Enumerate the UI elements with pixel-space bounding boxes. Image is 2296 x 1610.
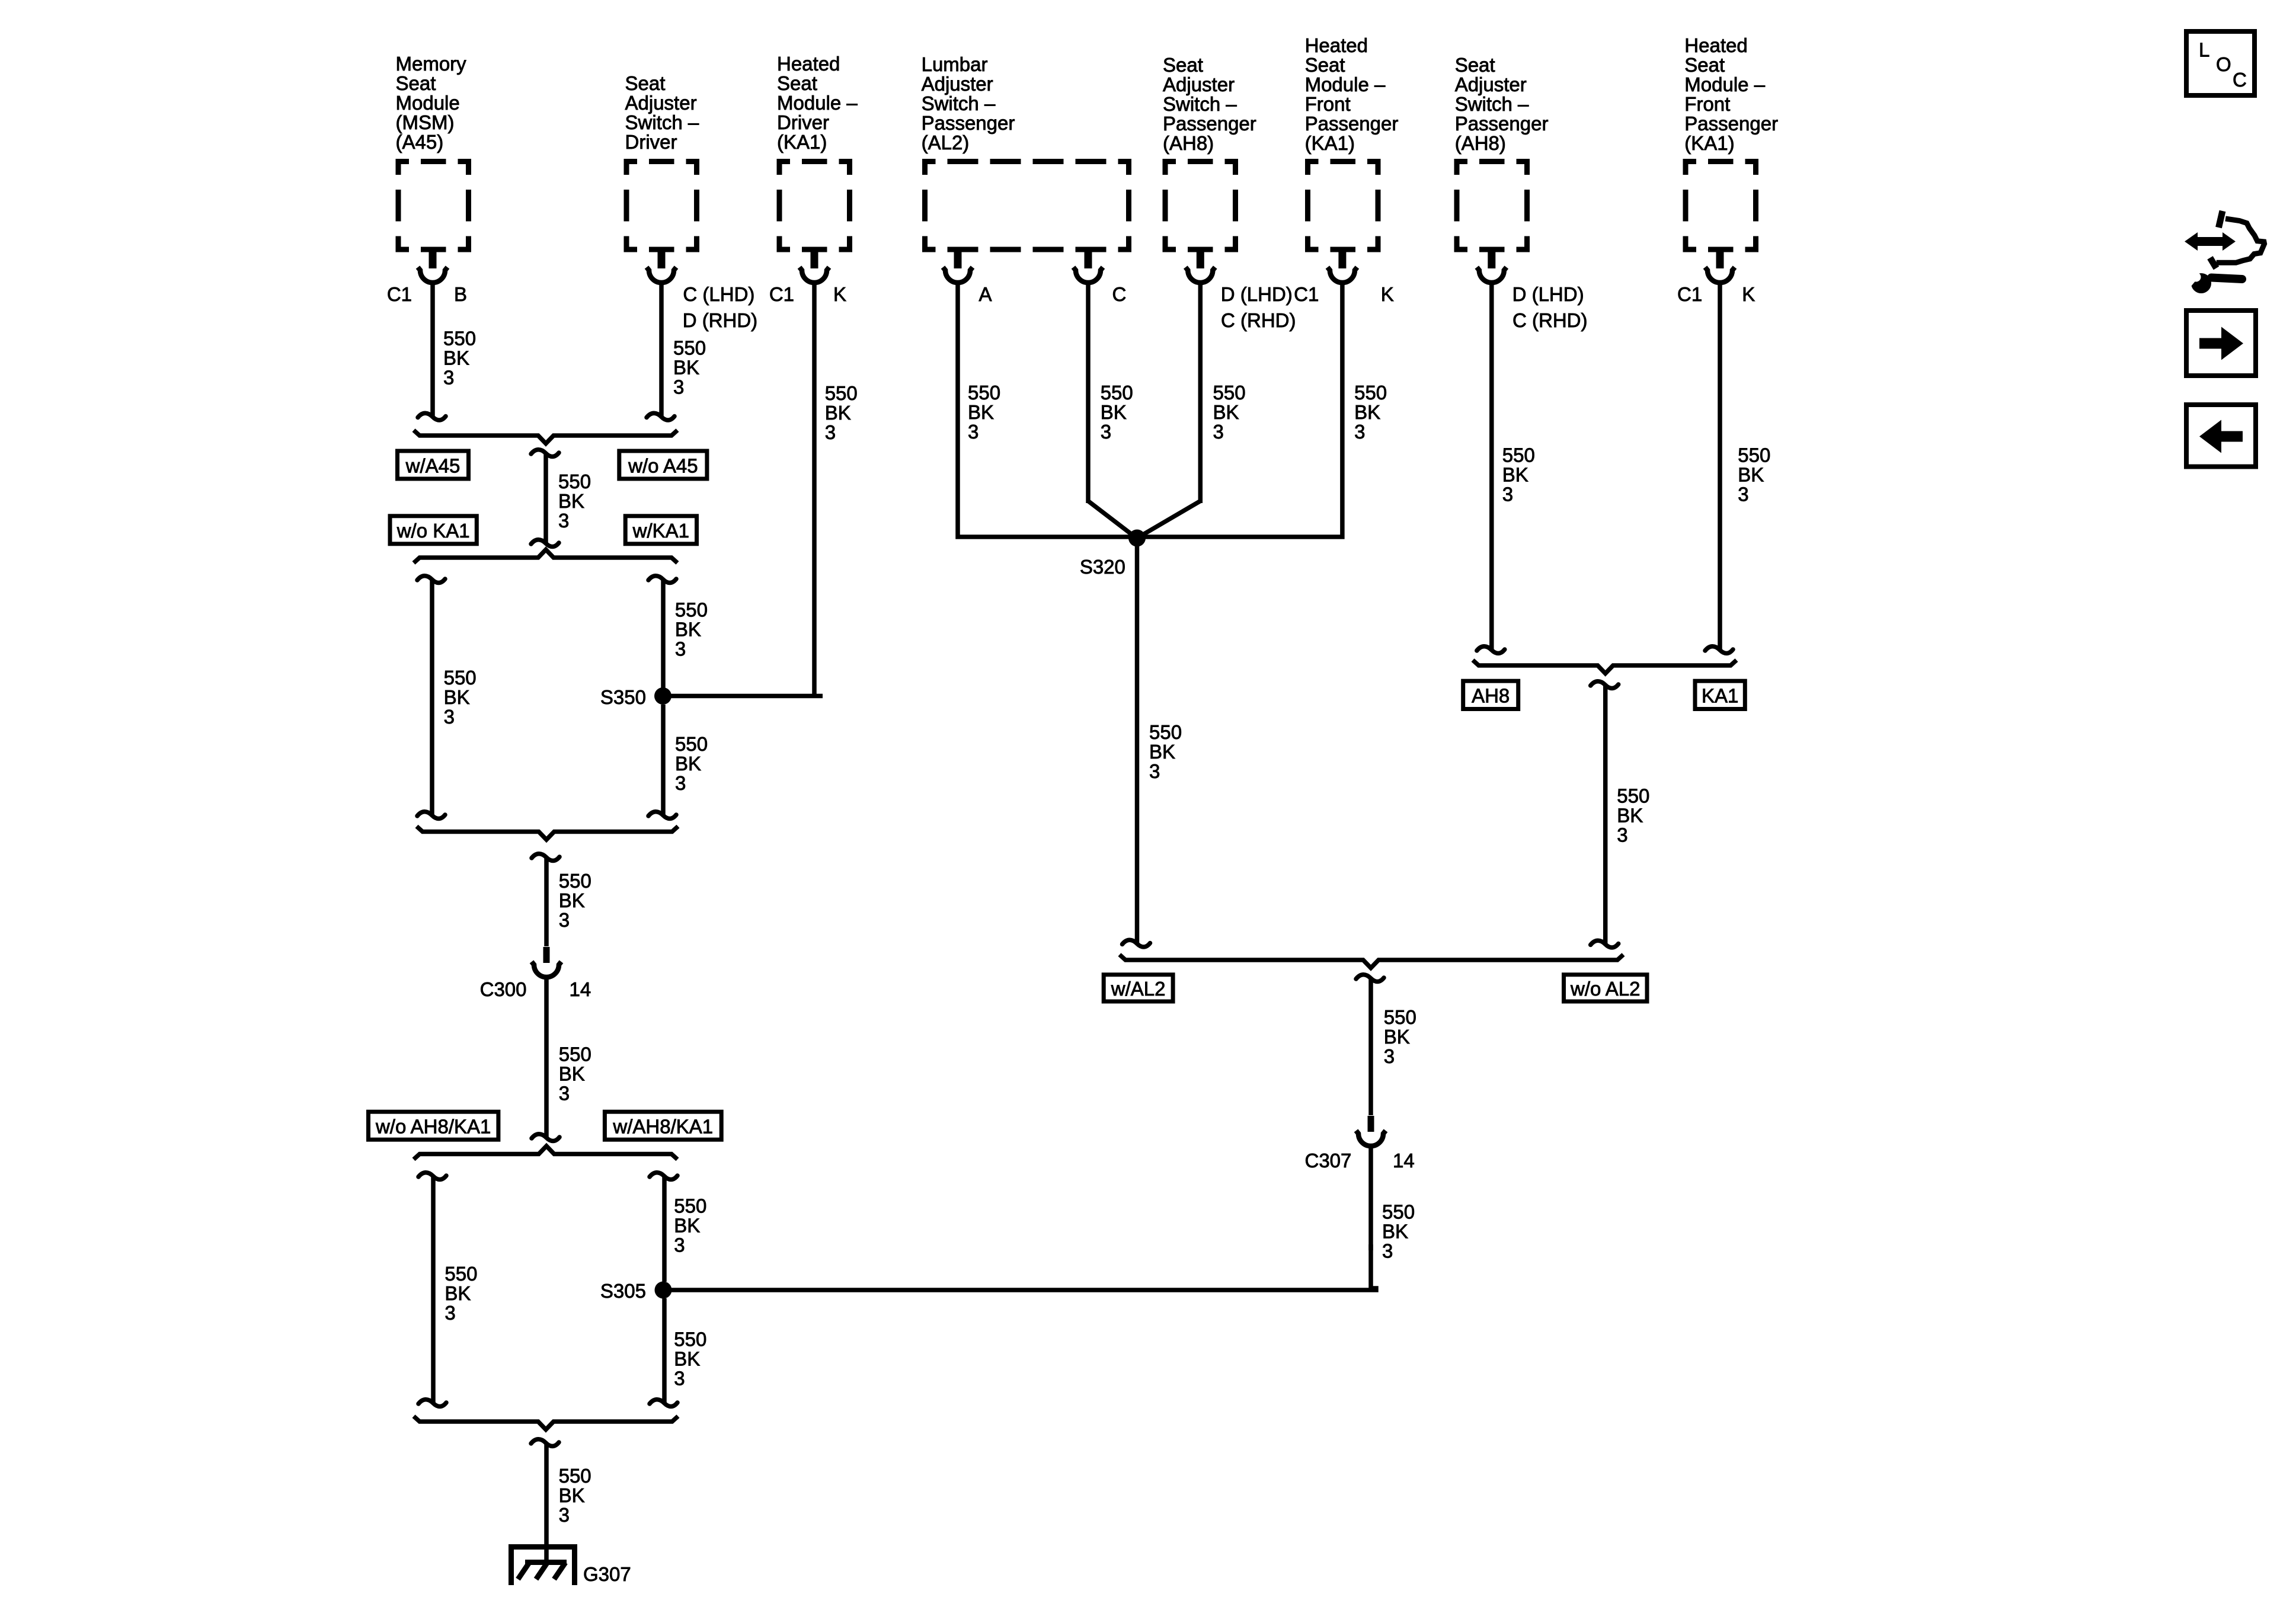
option box w/A45: [398, 451, 469, 479]
svg-text:KA1: KA1: [1702, 685, 1738, 707]
wire 550 BK 3 from Heated Seat Front Passenger pin K: [1144, 284, 1342, 537]
inline connector C300 pin 14: [543, 947, 550, 963]
svg-text:S320: S320: [1080, 556, 1125, 578]
option box w/KA1: [625, 516, 696, 544]
svg-text:D (RHD): D (RHD): [683, 309, 757, 331]
wire 550 BK 3 left branch: [430, 580, 434, 815]
option merge brace w/AL2 - w/o AL2: [1120, 955, 1623, 968]
wire 550 BK 3 below S305: [662, 1298, 667, 1403]
wire start curl (right branch to S305): [650, 1173, 677, 1180]
wire 550 BK 3 from C307 to S305: [1368, 1147, 1373, 1250]
diagonal wire C to S320: [1088, 501, 1135, 537]
wire start curl above ground wire: [531, 1439, 559, 1446]
svg-text:w/AH8/KA1: w/AH8/KA1: [612, 1116, 713, 1138]
wire 550 BK 3 from MSM pin B: [430, 284, 435, 417]
LOC legend box: [2186, 31, 2255, 95]
wire end curl above split brace: [532, 1134, 559, 1141]
component box: Heated Seat Module - Front Passenger (KA1) #2: [1686, 162, 1756, 250]
wire end curl (MSM wire): [418, 413, 446, 420]
wire 550 BK 3 from Seat Adjuster Switch - Driver: [659, 284, 664, 417]
pin D(LHD)/C(RHD) on Seat Adjuster Switch - Passenger #2: [1488, 249, 1495, 268]
option box w/AL2: [1104, 975, 1173, 1001]
wire 550 BK 3 from Lumbar pin A: [958, 284, 1130, 537]
svg-text:S305: S305: [600, 1280, 646, 1302]
wire end curl (left branch 2): [418, 1400, 446, 1407]
wire start curl (right branch to S350): [648, 576, 676, 583]
component box: Memory Seat Module (MSM) (A45): [398, 162, 469, 250]
component box: Heated Seat Module - Driver (KA1): [779, 162, 850, 250]
svg-text:C1: C1: [769, 283, 794, 305]
wire end curl (below S305): [650, 1400, 677, 1407]
svg-text:C: C: [2233, 69, 2247, 91]
wire 550 BK 3 into C300: [544, 857, 549, 946]
wire end curl (AH8 wire): [1477, 646, 1505, 654]
option box AH8: [1463, 681, 1518, 709]
splice S350: [654, 687, 671, 705]
pin K of connector C1 on Heated Seat Module - Front Passenger #2: [1716, 249, 1724, 268]
component box: Lumbar Adjuster Switch - Passenger (AL2): [925, 162, 1129, 250]
svg-text:C (RHD): C (RHD): [1512, 309, 1587, 331]
pin D(LHD)/C(RHD) on Seat Adjuster Switch - Passenger: [1197, 249, 1204, 268]
svg-text:w/o AH8/KA1: w/o AH8/KA1: [375, 1116, 491, 1138]
wire 550 BK 3 from Heated Seat Front Passenger #2 pin K: [1718, 284, 1722, 650]
svg-text:C307: C307: [1305, 1150, 1352, 1172]
wire start curl below brace: [531, 450, 559, 457]
svg-text:G307: G307: [583, 1563, 631, 1585]
component box: Heated Seat Module - Front Passenger (KA1): [1308, 162, 1379, 250]
splice S305: [655, 1282, 672, 1299]
pin C on Lumbar Adjuster Switch: [1085, 249, 1092, 268]
pin K of connector C1 on Heated Seat Module - Front Passenger: [1338, 249, 1346, 268]
svg-text:S350: S350: [600, 686, 646, 708]
wire 550 BK 3 below S350: [661, 705, 666, 815]
wire 550 BK 3 from Seat Adjuster Passenger #2 pin D: [1489, 284, 1494, 650]
svg-text:D (LHD): D (LHD): [1512, 283, 1584, 305]
svg-text:K: K: [1381, 283, 1394, 305]
option split brace w/o AH8/KA1 - w/AH8/KA1: [414, 1146, 677, 1160]
wire 550 BK 3 from Lumbar pin C: [1086, 284, 1091, 503]
svg-text:K: K: [1742, 283, 1755, 305]
wire 550 BK 3 from Seat Adjuster Passenger pin D: [1198, 284, 1203, 503]
wire end curl (driver switch wire): [647, 413, 674, 420]
svg-text:A: A: [979, 283, 992, 305]
back arrow box: [2186, 405, 2256, 467]
wire 550 BK 3 to ground G307: [544, 1443, 549, 1562]
forward/back navigation tool icon: [2196, 237, 2225, 246]
pin B of connector C1 on MSM: [429, 249, 437, 268]
pin C(LHD)/D(RHD) on Seat Adjuster Switch - Driver: [658, 249, 666, 268]
component box: Seat Adjuster Switch - Driver: [626, 162, 697, 250]
wire 550 BK 3 below C300: [544, 978, 549, 1138]
wire from S350 to driver heated module wire: [663, 694, 823, 699]
svg-text:C: C: [1112, 283, 1127, 305]
svg-text:AH8: AH8: [1472, 685, 1510, 707]
forward arrow box: [2186, 311, 2256, 376]
wire from S305 to C307 branch: [663, 1244, 1376, 1290]
option merge brace AH8 - KA1: [1473, 660, 1737, 674]
svg-text:L: L: [2199, 39, 2209, 61]
wire 550 BK 3 below S320: [1135, 545, 1140, 944]
svg-text:C (LHD): C (LHD): [683, 283, 754, 305]
svg-text:C1: C1: [387, 283, 412, 305]
option box w/o A45: [619, 451, 707, 479]
svg-text:O: O: [2216, 53, 2231, 75]
svg-text:C300: C300: [480, 978, 527, 1000]
option merge brace w/A45 - w/o A45: [414, 430, 677, 444]
svg-text:K: K: [833, 283, 846, 305]
merge brace above C300: [417, 827, 678, 840]
svg-text:w/A45: w/A45: [405, 454, 461, 476]
wire end curl (left branch): [417, 812, 445, 819]
svg-text:w/o AL2: w/o AL2: [1570, 978, 1640, 1000]
splice S320: [1128, 530, 1146, 547]
option box w/o AL2: [1564, 975, 1648, 1001]
svg-text:w/o A45: w/o A45: [628, 454, 698, 476]
svg-text:C1: C1: [1294, 283, 1319, 305]
svg-text:14: 14: [1393, 1150, 1415, 1172]
wire 550 BK 3 into C307: [1368, 978, 1373, 1115]
wire start curl below AH8/KA1 brace: [1591, 681, 1619, 689]
svg-text:D (LHD): D (LHD): [1221, 283, 1293, 305]
diagonal wire D to S320: [1139, 501, 1200, 537]
component box: Seat Adjuster Switch - Passenger (AH8) #2: [1457, 162, 1527, 250]
svg-text:B: B: [454, 283, 467, 305]
component box: Seat Adjuster Switch - Passenger (AH8): [1165, 162, 1236, 250]
option box w/o KA1: [390, 516, 477, 544]
svg-text:C (RHD): C (RHD): [1221, 309, 1296, 331]
wire 550 BK 3 to splice S305: [662, 1176, 667, 1282]
ground G307: [510, 1544, 576, 1550]
wire end curl (below S350): [648, 812, 676, 819]
wire end curl above w/KA1 split brace: [531, 540, 559, 547]
inline connector C307 pin 14: [1368, 1116, 1374, 1132]
wire 550 BK 3 to splice S350: [661, 580, 666, 689]
wire start curl below AL2 brace: [1356, 975, 1384, 982]
svg-text:C1: C1: [1677, 283, 1702, 305]
merge brace above ground: [414, 1416, 678, 1430]
wire 550 BK 3 from Heated Seat Module - Driver pin K: [812, 284, 817, 696]
pin K of connector C1 on Heated Seat Module - Driver: [811, 249, 818, 268]
wire 550 BK 3 between option braces: [543, 453, 548, 543]
option box KA1: [1695, 681, 1745, 709]
wire end curl (below S320): [1123, 940, 1150, 947]
wire start curl (left branch 2): [418, 1173, 446, 1180]
wire start curl (left branch): [417, 576, 445, 583]
wire end curl (KA1 wire): [1705, 646, 1733, 654]
wire start curl above C300: [532, 854, 559, 861]
svg-text:w/o KA1: w/o KA1: [396, 520, 470, 542]
option box w/AH8/KA1: [605, 1112, 721, 1140]
option split brace w/o KA1 - w/KA1: [414, 550, 677, 564]
wire 550 BK 3 left branch 2: [431, 1176, 436, 1403]
pin A on Lumbar Adjuster Switch: [954, 249, 962, 268]
svg-text:w/AL2: w/AL2: [1111, 978, 1166, 1000]
svg-text:w/KA1: w/KA1: [632, 520, 689, 542]
svg-text:14: 14: [570, 978, 591, 1000]
wire 550 BK 3 below AH8/KA1 brace: [1603, 685, 1608, 945]
wire end curl above AL2 brace: [1591, 940, 1619, 948]
option box w/o AH8/KA1: [369, 1112, 498, 1140]
